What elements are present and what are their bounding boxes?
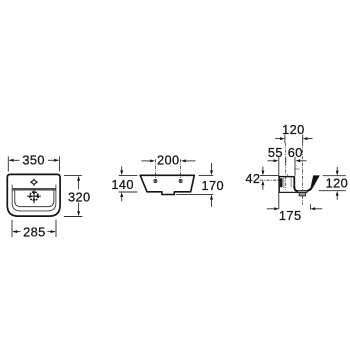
- side profile: front face band: [309, 175, 320, 191]
- centerline dash between 55 and 60: [285, 158, 287, 163]
- svg-text:120: 120: [282, 122, 305, 137]
- svg-text:175: 175: [279, 208, 302, 223]
- hole centerline left: [154, 159, 156, 183]
- dim 120 right: [319, 167, 346, 200]
- svg-text:170: 170: [202, 178, 225, 193]
- side profile: basin back wall: [293, 176, 295, 188]
- small tick right of 60 line: [295, 168, 299, 170]
- dim 200: [142, 160, 196, 162]
- faucet hole symbol: [30, 179, 38, 186]
- basin inner rim line: [12, 185, 56, 211]
- dim 350: [8, 156, 59, 171]
- side profile: back outer edge: [278, 176, 280, 193]
- svg-text:140: 140: [111, 177, 134, 192]
- hole centerline right: [180, 159, 182, 183]
- front outline with bottom tab: [140, 175, 194, 194]
- drain centerline: [301, 143, 303, 205]
- deck front edge: [13, 188, 56, 191]
- svg-text:55: 55: [268, 145, 283, 160]
- svg-text:320: 320: [68, 189, 91, 204]
- tap centerline: [285, 143, 287, 190]
- wall line lower segment: [278, 192, 280, 209]
- drain symbol: [27, 189, 41, 203]
- svg-text:120: 120: [326, 175, 349, 190]
- svg-text:200: 200: [157, 153, 180, 168]
- side profile: deck top edge: [278, 176, 293, 178]
- side profile: inner channel lines: [283, 177, 285, 188]
- side profile: drain body: [299, 193, 305, 196]
- fixing hole right: [179, 180, 182, 183]
- svg-text:285: 285: [23, 224, 46, 239]
- dim 170: [176, 163, 213, 207]
- dim 140: [119, 166, 138, 201]
- side profile: drain flange: [298, 191, 307, 193]
- side profile: wall bracket (filled): [280, 178, 283, 187]
- dim 175: [267, 204, 323, 209]
- dim 320: [64, 175, 83, 216]
- side profile: back box bottom: [279, 191, 299, 193]
- svg-text:42: 42: [245, 171, 260, 186]
- fixing hole left: [154, 180, 157, 183]
- basin outer outline: [7, 174, 60, 216]
- bowl outline: [15, 190, 54, 206]
- svg-text:350: 350: [22, 153, 45, 168]
- small deck tick: [287, 174, 289, 176]
- side profile: bowl bottom curve: [294, 187, 311, 191]
- dim 285: [12, 220, 56, 237]
